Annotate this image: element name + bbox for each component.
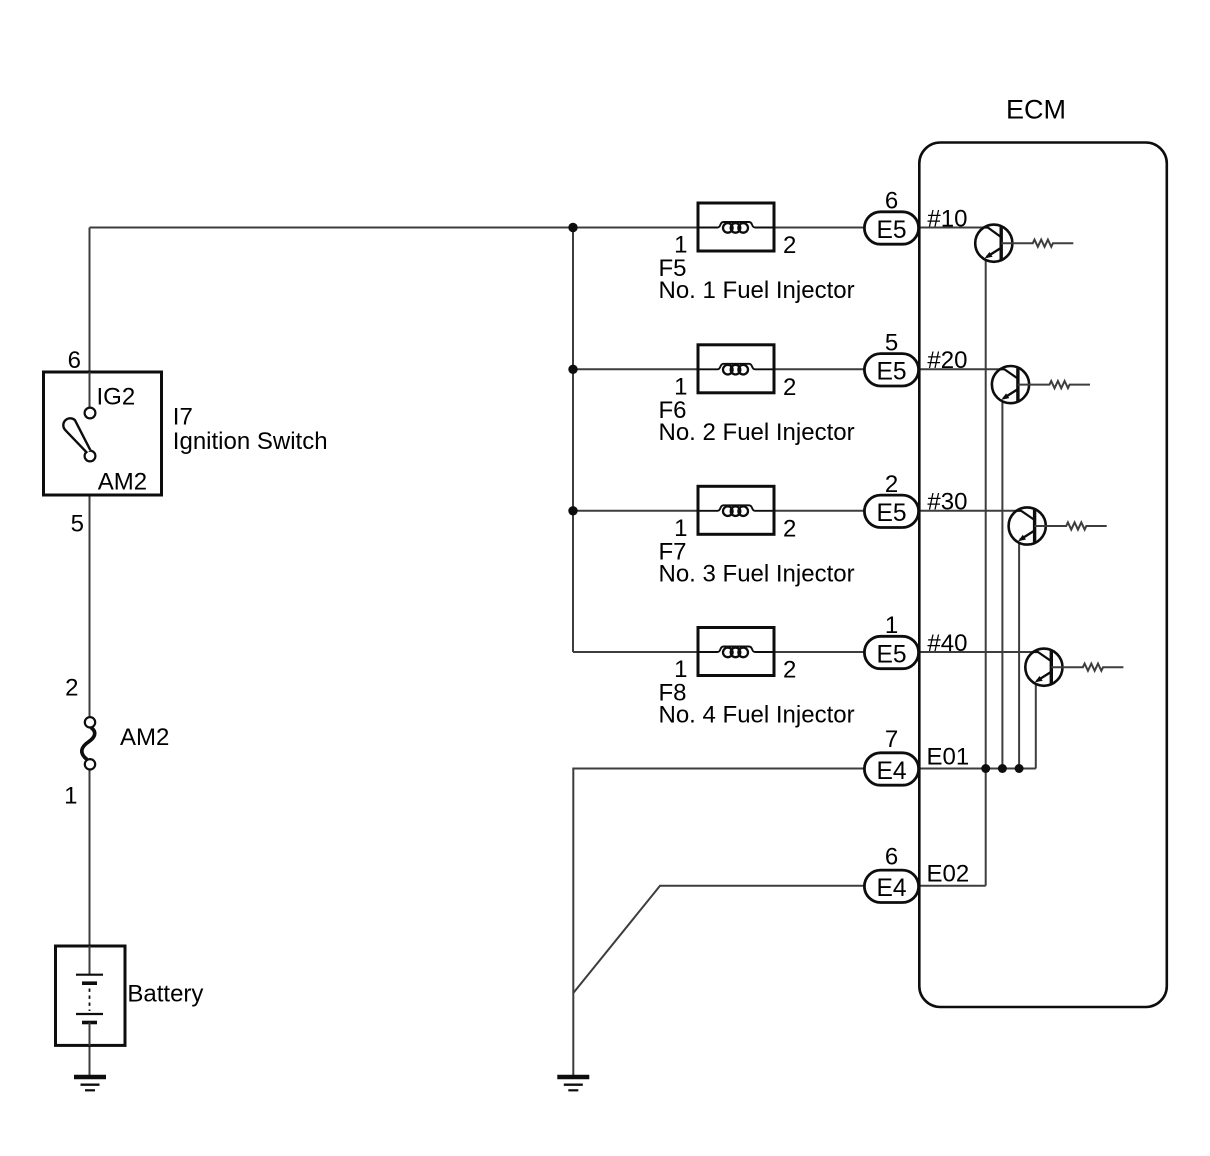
svg-text:AM2: AM2 — [98, 469, 147, 496]
svg-text:ECM: ECM — [1006, 95, 1066, 125]
svg-text:6: 6 — [68, 347, 81, 374]
svg-text:1: 1 — [885, 612, 898, 639]
svg-text:2: 2 — [65, 675, 78, 702]
svg-text:#30: #30 — [927, 489, 967, 516]
svg-text:E02: E02 — [927, 860, 970, 887]
svg-text:E5: E5 — [876, 641, 906, 668]
svg-text:No. 1 Fuel Injector: No. 1 Fuel Injector — [659, 277, 855, 304]
svg-text:E5: E5 — [876, 500, 906, 527]
svg-text:6: 6 — [885, 843, 898, 870]
svg-text:Ignition Switch: Ignition Switch — [173, 428, 328, 455]
svg-text:#20: #20 — [927, 347, 967, 374]
svg-text:E5: E5 — [876, 359, 906, 386]
svg-text:No. 2 Fuel Injector: No. 2 Fuel Injector — [659, 419, 855, 446]
svg-text:E4: E4 — [876, 758, 906, 785]
svg-text:E01: E01 — [927, 744, 970, 771]
svg-text:2: 2 — [783, 374, 796, 401]
svg-text:2: 2 — [783, 657, 796, 684]
svg-text:2: 2 — [783, 232, 796, 259]
svg-text:E4: E4 — [876, 875, 906, 902]
svg-text:AM2: AM2 — [120, 724, 169, 751]
svg-text:No. 3 Fuel Injector: No. 3 Fuel Injector — [659, 560, 855, 587]
svg-text:IG2: IG2 — [97, 384, 136, 411]
svg-text:2: 2 — [783, 516, 796, 543]
svg-text:1: 1 — [64, 783, 77, 810]
svg-text:Battery: Battery — [127, 981, 203, 1008]
svg-text:#10: #10 — [927, 205, 967, 232]
svg-text:E5: E5 — [876, 217, 906, 244]
svg-text:2: 2 — [885, 471, 898, 498]
svg-text:5: 5 — [71, 511, 84, 538]
svg-text:6: 6 — [885, 188, 898, 215]
svg-text:#40: #40 — [927, 630, 967, 657]
svg-text:I7: I7 — [173, 404, 193, 431]
svg-text:No. 4 Fuel Injector: No. 4 Fuel Injector — [659, 702, 855, 729]
svg-text:7: 7 — [885, 726, 898, 753]
svg-text:5: 5 — [885, 329, 898, 356]
